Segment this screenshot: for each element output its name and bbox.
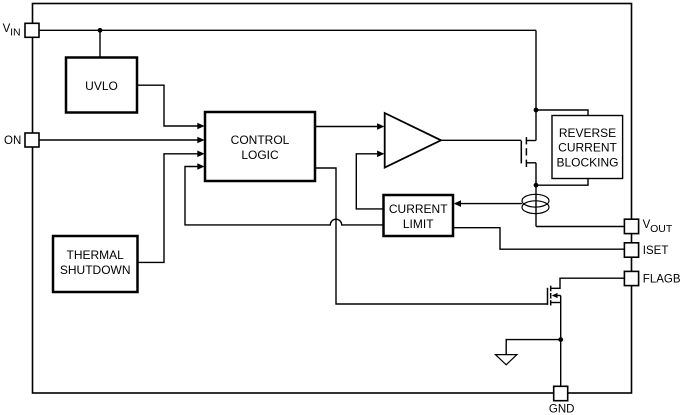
svg-text:ON: ON xyxy=(4,135,21,147)
svg-text:GND: GND xyxy=(549,403,575,415)
svg-text:CURRENT: CURRENT xyxy=(389,202,448,216)
svg-text:LIMIT: LIMIT xyxy=(403,217,434,231)
svg-text:SHUTDOWN: SHUTDOWN xyxy=(60,263,131,277)
svg-text:THERMAL: THERMAL xyxy=(67,248,125,262)
svg-text:UVLO: UVLO xyxy=(85,79,118,93)
svg-text:REVERSE: REVERSE xyxy=(559,126,616,140)
svg-text:LOGIC: LOGIC xyxy=(241,148,279,162)
svg-text:FLAGB: FLAGB xyxy=(643,274,681,286)
svg-text:BLOCKING: BLOCKING xyxy=(556,155,618,169)
svg-text:CURRENT: CURRENT xyxy=(558,140,617,154)
svg-text:CONTROL: CONTROL xyxy=(231,133,290,147)
svg-text:ISET: ISET xyxy=(643,245,669,257)
